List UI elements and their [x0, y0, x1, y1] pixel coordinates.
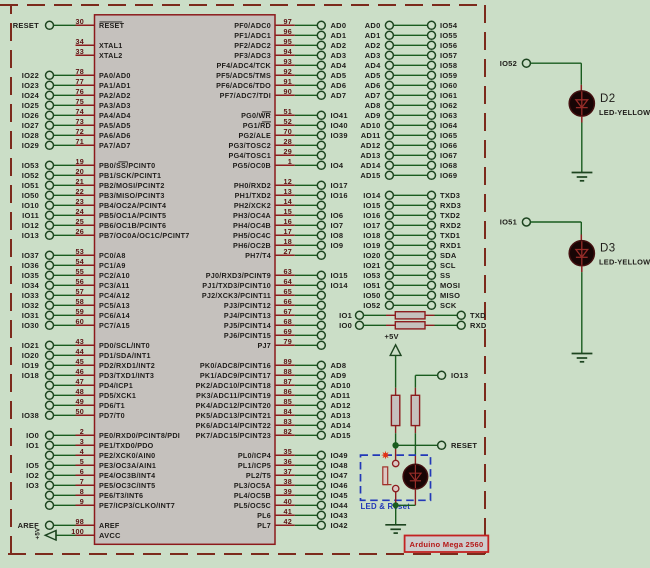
svg-text:24: 24: [76, 207, 85, 216]
svg-text:PC4/A12: PC4/A12: [99, 291, 130, 300]
svg-text:IO7: IO7: [331, 221, 344, 230]
pin 38 PL3/OC5A (right stub, number, name): [234, 477, 295, 490]
power terminal +5V on AVCC: [35, 527, 76, 541]
svg-text:IO11: IO11: [22, 211, 39, 220]
svg-text:IO9: IO9: [331, 241, 344, 250]
svg-text:PD2/RXD1/INT2: PD2/RXD1/INT2: [99, 361, 155, 370]
svg-text:PA2/AD2: PA2/AD2: [99, 91, 131, 100]
pin 5 PE3/OC3A/AIN1 (left stub, number, name): [76, 457, 157, 470]
svg-text:IO17: IO17: [363, 221, 380, 230]
LED D1 (pin13 LED): [403, 464, 428, 489]
svg-text:IO8: IO8: [331, 231, 344, 240]
svg-text:IO47: IO47: [331, 471, 348, 480]
net AD14 to terminal IO68: wire + terminals: [360, 161, 457, 170]
svg-text:IO64: IO64: [440, 121, 458, 130]
svg-text:IO42: IO42: [331, 521, 348, 530]
pin 90 PF7/ADC7/TDI (right stub, number, name): [220, 87, 295, 100]
svg-text:AD5: AD5: [331, 71, 347, 80]
terminal IO42 + wire from pin 42: [295, 521, 348, 530]
svg-text:16: 16: [284, 217, 293, 226]
terminal IO44 + wire from pin 40: [295, 501, 349, 510]
svg-text:IO6: IO6: [331, 211, 344, 220]
wire +5V to resistor R3: [395, 355, 397, 395]
svg-text:IO62: IO62: [440, 101, 457, 110]
svg-text:21: 21: [76, 177, 85, 186]
net AD7 to terminal IO61: wire + terminals: [365, 91, 458, 100]
svg-text:52: 52: [284, 117, 293, 126]
wire to ground symbol: [395, 505, 397, 525]
svg-text:PA3/AD3: PA3/AD3: [99, 101, 131, 110]
pin 97 PF0/ADC0 (right stub, number, name): [234, 17, 295, 30]
svg-text:IO46: IO46: [331, 481, 348, 490]
pin 53 PC0/A8 (left stub, number, name): [76, 247, 126, 260]
terminal IO12 + wire to pin 25: [22, 221, 76, 230]
svg-text:12: 12: [284, 177, 293, 186]
svg-text:PA0/AD0: PA0/AD0: [99, 71, 131, 80]
svg-text:25: 25: [76, 217, 85, 226]
svg-text:AVCC: AVCC: [99, 531, 121, 540]
svg-text:PA4/AD4: PA4/AD4: [99, 111, 131, 120]
svg-text:PJ2/XCK3/PCINT11: PJ2/XCK3/PCINT11: [202, 291, 271, 300]
svg-text:AREF: AREF: [99, 521, 120, 530]
svg-text:IO15: IO15: [363, 201, 380, 210]
pin 54 PC1/A9 (left stub, number, name): [76, 257, 126, 270]
terminal IO21 + wire to pin 43: [22, 341, 76, 350]
svg-text:AD12: AD12: [331, 401, 351, 410]
svg-text:PJ6/PCINT15: PJ6/PCINT15: [224, 331, 271, 340]
svg-text:PF6/ADC6/TDO: PF6/ADC6/TDO: [216, 81, 271, 90]
pin 44 PD1/SDA/INT1 (left stub, number, name): [76, 347, 151, 360]
pin 70 PG2/ALE (right stub, number, name): [238, 127, 294, 140]
svg-text:PH1/TXD2: PH1/TXD2: [235, 191, 271, 200]
svg-text:47: 47: [76, 377, 85, 386]
pin 56 PC3/A11 (left stub, number, name): [76, 277, 130, 290]
svg-text:IO31: IO31: [22, 311, 39, 320]
terminal IO11 + wire to pin 24: [22, 211, 75, 220]
pin 68 PJ5/PCINT14 (right stub, number, name): [224, 317, 295, 330]
svg-text:Arduino Mega 2560: Arduino Mega 2560: [410, 540, 484, 549]
terminal (unlabelled) + wire to pin 8: [46, 491, 76, 499]
svg-text:AD0: AD0: [365, 21, 381, 30]
svg-text:SCL: SCL: [440, 261, 456, 270]
svg-text:PH2/XCK2: PH2/XCK2: [234, 201, 271, 210]
svg-text:86: 86: [284, 387, 293, 396]
svg-text:AD1: AD1: [365, 31, 381, 40]
terminal (unlabelled) + wire from pin 67: [295, 311, 326, 319]
pin 51 PG0/WR (right stub, number, name): [241, 107, 295, 120]
svg-text:PD0/SCL/INT0: PD0/SCL/INT0: [99, 341, 150, 350]
svg-text:92: 92: [284, 67, 293, 76]
pin 12 PH0/RXD2 (right stub, number, name): [234, 177, 295, 190]
svg-text:PK6/ADC14/PCINT22: PK6/ADC14/PCINT22: [196, 421, 271, 430]
svg-text:23: 23: [76, 197, 85, 206]
svg-text:IO16: IO16: [331, 191, 348, 200]
svg-text:82: 82: [284, 427, 293, 436]
LED D3: [569, 241, 650, 267]
svg-text:IO56: IO56: [440, 41, 457, 50]
net AD12 to terminal IO66: wire + terminals: [360, 141, 457, 150]
svg-text:IO0: IO0: [26, 431, 39, 440]
pin 36 PL1/ICP5 (right stub, number, name): [238, 457, 295, 470]
net AD8 to terminal IO62: wire + terminals: [365, 101, 458, 110]
terminal AD10 + wire from pin 87: [295, 381, 351, 390]
svg-text:36: 36: [284, 457, 293, 466]
pin 27 PH7/T4 (right stub, number, name): [245, 247, 295, 260]
svg-text:IO51: IO51: [363, 281, 380, 290]
svg-text:IO4: IO4: [331, 161, 344, 170]
svg-text:PK4/ADC12/PCINT20: PK4/ADC12/PCINT20: [196, 401, 271, 410]
pin 30 RESET (left stub, number, name): [76, 17, 125, 30]
svg-text:PK2/ADC10/PCINT18: PK2/ADC10/PCINT18: [196, 381, 271, 390]
svg-text:IO59: IO59: [440, 71, 457, 80]
pin 28 PG3/TOSC2 (right stub, number, name): [229, 137, 295, 150]
svg-text:63: 63: [284, 267, 293, 276]
wire IO0 to resistor R2: [364, 324, 396, 326]
terminal IO53 + wire to pin 19: [22, 161, 76, 170]
terminal IO48 + wire from pin 36: [295, 461, 348, 470]
svg-text:RESET: RESET: [451, 441, 477, 450]
terminal IO0 + wire to pin 2: [26, 431, 75, 440]
pin 87 PK2/ADC10/PCINT18 (right stub, number, name): [196, 377, 295, 390]
pin 20 PB1/SCK/PCINT1 (left stub, number, name): [76, 167, 162, 180]
svg-text:PD6/T1: PD6/T1: [99, 401, 125, 410]
svg-text:94: 94: [284, 47, 293, 56]
svg-text:PF3/ADC3: PF3/ADC3: [234, 51, 271, 60]
svg-text:IO36: IO36: [22, 261, 39, 270]
net AD9 to terminal IO63: wire + terminals: [365, 111, 458, 120]
terminal IO14 + wire from pin 64: [295, 281, 349, 290]
svg-text:77: 77: [76, 77, 85, 86]
svg-text:AD6: AD6: [365, 81, 381, 90]
svg-text:64: 64: [284, 277, 293, 286]
svg-text:76: 76: [76, 87, 85, 96]
pin 93 PF4/ADC4/TCK (right stub, number, name): [216, 57, 294, 70]
pin 64 PJ1/TXD3/PCINT10 (right stub, number, name): [202, 277, 295, 290]
svg-text:AD13: AD13: [360, 151, 380, 160]
wire LED D1 cathode to ground net: [396, 489, 416, 505]
svg-text:44: 44: [76, 347, 85, 356]
svg-text:LED & Reset: LED & Reset: [361, 502, 411, 511]
terminal AD12 + wire from pin 85: [295, 401, 351, 410]
svg-text:IO52: IO52: [363, 301, 380, 310]
terminal IO47 + wire from pin 37: [295, 471, 348, 480]
net AD13 to terminal IO67: wire + terminals: [360, 151, 457, 160]
svg-text:AD4: AD4: [365, 61, 381, 70]
terminal IO20 + wire to pin 44: [22, 351, 76, 360]
svg-text:PL7: PL7: [257, 521, 271, 530]
svg-text:100: 100: [71, 527, 84, 536]
svg-text:PF7/ADC7/TDI: PF7/ADC7/TDI: [220, 91, 271, 100]
terminal IO9 + wire from pin 18: [295, 241, 344, 250]
svg-text:15: 15: [284, 207, 293, 216]
terminal IO29 + wire to pin 71: [22, 141, 76, 150]
IC U1 ATmega2560 body: [95, 15, 276, 545]
terminal (unlabelled) + wire from pin 66: [295, 301, 326, 309]
svg-text:AD5: AD5: [365, 71, 381, 80]
svg-text:AD3: AD3: [365, 51, 381, 60]
svg-text:PE3/OC3A/AIN1: PE3/OC3A/AIN1: [99, 461, 156, 470]
terminal (unlabelled) + wire to pin 49: [46, 401, 76, 409]
svg-text:PH7/T4: PH7/T4: [245, 251, 271, 260]
svg-text:IO16: IO16: [363, 211, 380, 220]
svg-text:IO43: IO43: [331, 511, 348, 520]
pin 14 PH2/XCK2 (right stub, number, name): [234, 197, 295, 210]
pin 35 PL0/ICP4 (right stub, number, name): [238, 447, 295, 460]
svg-text:IO57: IO57: [440, 51, 457, 60]
net IO50 to terminal MISO: wire + terminals: [363, 291, 460, 300]
svg-text:IO21: IO21: [363, 261, 380, 270]
svg-text:53: 53: [76, 247, 85, 256]
svg-text:TXD1: TXD1: [440, 231, 460, 240]
svg-text:37: 37: [284, 467, 293, 476]
svg-text:PJ7: PJ7: [257, 341, 271, 350]
terminal IO51 + wire to pin 21: [22, 181, 76, 190]
svg-text:PG4/TOSC1: PG4/TOSC1: [229, 151, 271, 160]
svg-text:14: 14: [284, 197, 293, 206]
svg-text:PE6/T3/INT6: PE6/T3/INT6: [99, 491, 143, 500]
terminal AD4 + wire from pin 93: [295, 61, 347, 70]
svg-text:AD9: AD9: [331, 371, 347, 380]
wire resistor R1 to terminal TXD: [425, 314, 457, 316]
svg-text:LED-YELLOW: LED-YELLOW: [599, 108, 650, 117]
svg-text:PG1/RD: PG1/RD: [243, 121, 271, 130]
wire resistor R4 to LED D1 anode: [414, 426, 416, 465]
resistor R4 (LED series): [411, 395, 419, 425]
wire resistor R2 to terminal RXD: [425, 324, 457, 326]
terminal IO45 + wire from pin 39: [295, 491, 348, 500]
wire IO13 to resistor R4: [415, 375, 437, 395]
svg-text:PD4/ICP1: PD4/ICP1: [99, 381, 133, 390]
pin 88 PK1/ADC9/PCINT17 (right stub, number, name): [200, 367, 295, 380]
svg-text:PG0/WR: PG0/WR: [241, 111, 271, 120]
svg-text:PL3/OC5A: PL3/OC5A: [234, 481, 271, 490]
terminal (unlabelled) + wire from pin 27: [295, 251, 326, 259]
terminal IO19 + wire to pin 45: [22, 361, 76, 370]
svg-text:34: 34: [76, 37, 85, 46]
terminal (unlabelled) + wire from pin 65: [295, 291, 326, 299]
pin 3 PE1/TXD0/PDO (left stub, number, name): [76, 437, 154, 450]
svg-text:IO33: IO33: [22, 291, 39, 300]
svg-text:PF4/ADC4/TCK: PF4/ADC4/TCK: [216, 61, 271, 70]
svg-text:IO34: IO34: [22, 281, 40, 290]
pin 17 PH5/OC4C (right stub, number, name): [233, 227, 295, 240]
svg-text:50: 50: [76, 407, 85, 416]
svg-text:PC3/A11: PC3/A11: [99, 281, 130, 290]
pin 42 PL7 (right stub, number, name): [257, 517, 295, 530]
svg-text:IO1: IO1: [26, 441, 39, 450]
terminal AD8 + wire from pin 89: [295, 361, 346, 370]
pin 37 PL2/T5 (right stub, number, name): [246, 467, 295, 480]
svg-text:PD3/TXD1/INT3: PD3/TXD1/INT3: [99, 371, 154, 380]
ground (D3): [572, 354, 593, 362]
svg-text:PE4/OC3B/INT4: PE4/OC3B/INT4: [99, 471, 155, 480]
svg-text:55: 55: [76, 267, 85, 276]
svg-text:IO50: IO50: [363, 291, 380, 300]
svg-text:IO38: IO38: [22, 411, 39, 420]
svg-text:RXD2: RXD2: [440, 221, 461, 230]
svg-text:38: 38: [284, 477, 293, 486]
svg-text:PJ1/TXD3/PCINT10: PJ1/TXD3/PCINT10: [202, 281, 271, 290]
svg-text:PJ5/PCINT14: PJ5/PCINT14: [224, 321, 271, 330]
wire button bottom pin to ground net: [395, 492, 397, 506]
svg-text:IO58: IO58: [440, 61, 457, 70]
terminal (unlabelled) + wire to pin 48: [46, 391, 76, 399]
svg-text:IO19: IO19: [22, 361, 39, 370]
svg-text:AD13: AD13: [331, 411, 351, 420]
svg-text:74: 74: [76, 107, 85, 116]
pin 86 PK3/ADC11/PCINT19 (right stub, number, name): [196, 387, 295, 400]
svg-text:68: 68: [284, 317, 293, 326]
terminal IO52 (to D2): [500, 59, 531, 68]
terminal AD14 + wire from pin 83: [295, 421, 351, 430]
terminal AD15 + wire from pin 82: [295, 431, 351, 440]
svg-text:98: 98: [76, 517, 85, 526]
svg-text:20: 20: [76, 167, 85, 176]
svg-text:96: 96: [284, 27, 293, 36]
pin 89 PK0/ADC8/PCINT16 (right stub, number, name): [200, 357, 295, 370]
svg-text:46: 46: [76, 367, 85, 376]
terminal RXD: [457, 321, 487, 330]
svg-text:AD10: AD10: [331, 381, 351, 390]
terminal IO3 + wire to pin 7: [26, 481, 75, 490]
svg-text:PA6/AD6: PA6/AD6: [99, 131, 131, 140]
svg-text:70: 70: [284, 127, 293, 136]
pin 18 PH6/OC2B (right stub, number, name): [233, 237, 295, 250]
svg-text:IO20: IO20: [363, 251, 380, 260]
svg-text:PG3/TOSC2: PG3/TOSC2: [229, 141, 271, 150]
svg-text:58: 58: [76, 297, 85, 306]
pin 1 PG5/OC0B (right stub, number, name): [233, 157, 295, 170]
pin 96 PF1/ADC1 (right stub, number, name): [234, 27, 295, 40]
pin 84 PK5/ADC13/PCINT21 (right stub, number, name): [196, 407, 295, 420]
pin 67 PJ4/PCINT13 (right stub, number, name): [224, 307, 295, 320]
svg-text:IO53: IO53: [22, 161, 39, 170]
terminal (unlabelled) + wire to pin 9: [46, 501, 76, 509]
svg-text:IO61: IO61: [440, 91, 457, 100]
svg-text:35: 35: [284, 447, 293, 456]
terminal IO4 + wire from pin 1: [295, 161, 344, 170]
terminal AD11 + wire from pin 86: [295, 391, 350, 400]
pin 69 PJ6/PCINT15 (right stub, number, name): [224, 327, 295, 340]
terminal AD9 + wire from pin 88: [295, 371, 346, 380]
LED D2: [569, 91, 650, 117]
pin 57 PC4/A12 (left stub, number, name): [76, 287, 130, 300]
svg-text:IO50: IO50: [22, 191, 39, 200]
svg-text:IO44: IO44: [331, 501, 349, 510]
net AD0 to terminal IO54: wire + terminals: [365, 21, 458, 30]
svg-text:IO41: IO41: [331, 111, 348, 120]
svg-text:IO21: IO21: [22, 341, 39, 350]
svg-text:69: 69: [284, 327, 293, 336]
svg-text:XTAL2: XTAL2: [99, 51, 122, 60]
svg-text:IO53: IO53: [363, 271, 380, 280]
svg-text:AD1: AD1: [331, 31, 347, 40]
terminal IO30 + wire to pin 60: [22, 321, 76, 330]
pin 50 PD7/T0 (left stub, number, name): [76, 407, 125, 420]
terminal IO38 + wire to pin 50: [22, 411, 76, 420]
svg-text:AD12: AD12: [360, 141, 380, 150]
svg-text:RESET: RESET: [99, 21, 125, 30]
resistor R1 (series TXD): [395, 312, 425, 319]
svg-text:AD15: AD15: [331, 431, 351, 440]
svg-text:PK3/ADC11/PCINT19: PK3/ADC11/PCINT19: [196, 391, 271, 400]
svg-text:IO23: IO23: [22, 81, 39, 90]
svg-text:IO65: IO65: [440, 131, 457, 140]
svg-text:PL0/ICP4: PL0/ICP4: [238, 451, 271, 460]
svg-text:PK7/ADC15/PCINT23: PK7/ADC15/PCINT23: [196, 431, 271, 440]
label Arduino Mega 2560: [405, 536, 489, 553]
svg-text:27: 27: [284, 247, 293, 256]
svg-text:22: 22: [76, 187, 85, 196]
svg-text:PH3/OC4A: PH3/OC4A: [233, 211, 271, 220]
terminal (unlabelled) + wire from pin 28: [295, 141, 326, 149]
terminal IO33 + wire to pin 57: [22, 291, 76, 300]
svg-text:AD8: AD8: [365, 101, 381, 110]
svg-text:PE7/ICP3/CLKO/INT7: PE7/ICP3/CLKO/INT7: [99, 501, 175, 510]
svg-text:IO55: IO55: [440, 31, 457, 40]
svg-text:IO19: IO19: [363, 241, 380, 250]
pin 71 PA7/AD7 (left stub, number, name): [76, 137, 131, 150]
svg-text:AD11: AD11: [361, 131, 381, 140]
pin 77 PA1/AD1 (left stub, number, name): [76, 77, 131, 90]
ground (D2): [572, 173, 593, 181]
terminal IO18 + wire to pin 46: [22, 371, 76, 380]
svg-text:RESET: RESET: [13, 21, 39, 30]
power terminal +5V: [385, 332, 402, 356]
svg-text:IO39: IO39: [331, 131, 348, 140]
svg-text:71: 71: [76, 137, 85, 146]
push button SW1 (reset): [383, 460, 399, 492]
svg-text:RXD: RXD: [470, 321, 487, 330]
terminal AD0 + wire from pin 97: [295, 21, 346, 30]
svg-text:PC6/A14: PC6/A14: [99, 311, 130, 320]
svg-text:6: 6: [80, 467, 84, 476]
terminal (unlabelled) + wire from pin 68: [295, 321, 326, 329]
pin 65 PJ2/XCK3/PCINT11 (right stub, number, name): [202, 287, 295, 300]
terminal (unlabelled) + wire from pin 79: [295, 341, 326, 349]
pin 24 PB5/OC1A/PCINT5 (left stub, number, name): [76, 207, 167, 220]
terminal (unlabelled) + wire to pin 47: [46, 381, 76, 389]
svg-text:IO15: IO15: [331, 271, 348, 280]
pin 76 PA2/AD2 (left stub, number, name): [76, 87, 131, 100]
svg-text:IO30: IO30: [22, 321, 39, 330]
svg-text:IO5: IO5: [26, 461, 39, 470]
svg-text:PB3/MISO/PCINT3: PB3/MISO/PCINT3: [99, 191, 165, 200]
svg-text:PB4/OC2A/PCINT4: PB4/OC2A/PCINT4: [99, 201, 166, 210]
svg-text:IO12: IO12: [22, 221, 39, 230]
svg-text:AD14: AD14: [331, 421, 352, 430]
terminal IO22 + wire to pin 78: [22, 71, 76, 80]
svg-text:IO17: IO17: [331, 181, 348, 190]
svg-text:+5V: +5V: [385, 332, 399, 341]
terminal IO28 + wire to pin 72: [22, 131, 76, 140]
svg-text:PA7/AD7: PA7/AD7: [99, 141, 131, 150]
svg-text:26: 26: [76, 227, 85, 236]
pin 8 PE6/T3/INT6 (left stub, number, name): [76, 487, 144, 500]
svg-text:TXD3: TXD3: [440, 191, 460, 200]
svg-text:84: 84: [284, 407, 293, 416]
svg-text:43: 43: [76, 337, 85, 346]
svg-text:IO10: IO10: [22, 201, 39, 210]
pin 52 PG1/RD (right stub, number, name): [243, 117, 295, 130]
svg-text:PL4/OC5B: PL4/OC5B: [234, 491, 271, 500]
terminal IO0: [339, 321, 363, 330]
terminal IO10 + wire to pin 23: [22, 201, 76, 210]
pin 63 PJ0/RXD3/PCINT9 (right stub, number, name): [206, 267, 295, 280]
terminal IO17 + wire from pin 12: [295, 181, 348, 190]
net IO20 to terminal SDA: wire + terminals: [363, 251, 457, 260]
svg-text:PC7/A15: PC7/A15: [99, 321, 130, 330]
